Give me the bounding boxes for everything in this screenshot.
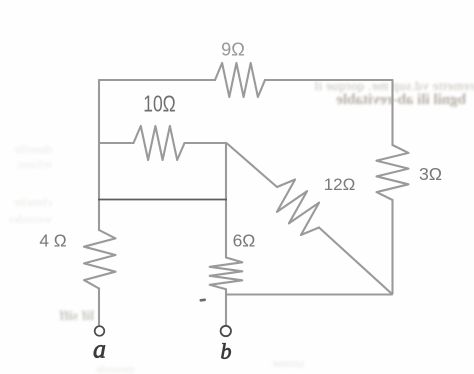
wire top (node TL to node TR) — [99, 79, 215, 81]
resistor R 12ohm — [277, 180, 319, 236]
bleed-through text bottom right of b — [238, 356, 304, 371]
resistor R 3ohm — [377, 145, 409, 200]
resistor R 6ohm — [210, 258, 243, 290]
wire right vertical top — [391, 80, 393, 145]
svg-text:12Ω: 12Ω — [324, 175, 356, 194]
wire diagonal lower — [319, 228, 392, 295]
artifact speck — [199, 298, 206, 301]
svg-text:b: b — [221, 339, 232, 364]
wire 10ohm row left — [99, 142, 134, 144]
svg-text:9Ω: 9Ω — [221, 39, 245, 59]
bleed-through text bottom left — [4, 309, 94, 325]
svg-text:6Ω: 6Ω — [233, 230, 256, 250]
wire dark node bar (node between 10ohm row and resistor branches) — [98, 199, 227, 201]
svg-text:a: a — [93, 335, 106, 364]
resistor R 10ohm — [134, 126, 185, 160]
svg-text:3Ω: 3Ω — [419, 164, 442, 184]
wire 10ohm row right — [185, 142, 227, 144]
bleed-through text top right line 2 — [296, 92, 466, 109]
wire 4ohm branch upper — [98, 200, 100, 231]
bleed-through text top right line 1 — [289, 78, 474, 94]
resistor R 9ohm — [215, 63, 265, 97]
wire mid vertical — [225, 143, 227, 200]
resistor R 4ohm — [84, 230, 116, 289]
wire right vertical bottom — [391, 200, 393, 294]
wire bottom (b branch to bottom right corner) — [226, 293, 392, 295]
wire terminal b lead — [225, 289, 227, 325]
terminal a — [95, 326, 105, 336]
svg-text:4 Ω: 4 Ω — [39, 231, 66, 251]
bleed-through text left margin — [0, 142, 52, 157]
wire terminal a lead — [98, 289, 100, 327]
wire diagonal upper — [227, 143, 278, 187]
wire left vertical — [98, 80, 100, 200]
wire 6ohm branch upper — [225, 200, 227, 258]
bleed-through text bottom edge — [58, 362, 134, 374]
terminal b — [221, 326, 231, 336]
svg-text:10Ω: 10Ω — [143, 90, 176, 116]
